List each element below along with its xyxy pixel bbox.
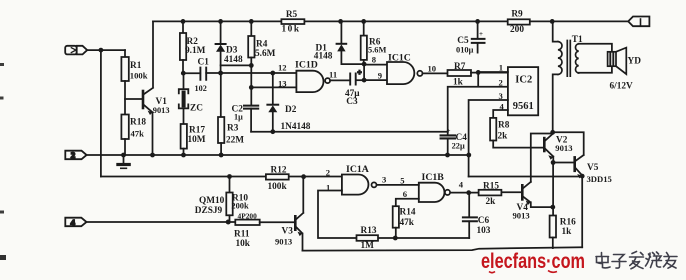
- svg-text:C1: C1: [198, 58, 210, 68]
- resistor R5: [281, 19, 304, 24]
- svg-text:9013: 9013: [275, 237, 292, 247]
- resistor R8: [490, 118, 496, 141]
- svg-text:R7: R7: [454, 62, 466, 72]
- connector J2 left: [65, 151, 86, 160]
- resistor R18: [121, 115, 128, 140]
- svg-text:IC1B: IC1B: [422, 172, 445, 183]
- svg-text:2: 2: [71, 150, 75, 160]
- transistor V2: [543, 138, 546, 151]
- capacitor C1: [183, 72, 200, 74]
- op-amp gate IC1C: [387, 62, 414, 84]
- svg-text:10M: 10M: [188, 135, 206, 145]
- diode D2: [272, 73, 274, 104]
- svg-text:V3: V3: [282, 226, 294, 236]
- svg-text:47k: 47k: [400, 218, 415, 228]
- resistor R10: [227, 174, 232, 179]
- crystal ZC: [183, 73, 185, 87]
- elecfans logo red: [481, 249, 585, 273]
- wire IC2 pin1: [478, 71, 508, 73]
- svg-text:10k: 10k: [282, 24, 301, 34]
- svg-text:IC2: IC2: [515, 75, 532, 86]
- svg-text:9013: 9013: [153, 106, 170, 115]
- svg-text:IC1C: IC1C: [388, 53, 411, 64]
- svg-text:2k: 2k: [486, 197, 497, 207]
- capacitor C3: [350, 73, 356, 84]
- wire IC1B pin4 out: [450, 192, 478, 194]
- svg-text:R5: R5: [286, 10, 298, 20]
- resistor R17: [181, 124, 187, 149]
- svg-text:102: 102: [195, 84, 207, 93]
- svg-text:1N4148: 1N4148: [281, 122, 311, 132]
- resistor R6: [361, 19, 366, 24]
- svg-text:elecfans·com: elecfans·com: [481, 249, 585, 273]
- svg-text:QM10: QM10: [199, 196, 225, 206]
- svg-text:5.6M: 5.6M: [255, 49, 276, 59]
- svg-text:100k: 100k: [130, 71, 148, 81]
- connector J4 left: [65, 218, 86, 227]
- resistor R15: [479, 190, 502, 196]
- svg-text:12: 12: [278, 63, 287, 73]
- svg-text:T1: T1: [572, 35, 583, 45]
- svg-text:R16: R16: [560, 217, 576, 227]
- scan specks left edge: [0, 65, 3, 213]
- resistor R14: [393, 206, 399, 228]
- resistor R16: [550, 216, 556, 238]
- diode D1: [338, 19, 343, 24]
- resistor R11: [235, 220, 259, 225]
- svg-text:3DD15: 3DD15: [587, 174, 612, 184]
- capacitor C5: [475, 19, 480, 24]
- capacitor C4: [441, 135, 455, 138]
- resistor R1: [124, 50, 126, 57]
- IC2 box: [508, 67, 538, 115]
- transformer T1 core: [567, 41, 570, 77]
- op-amp gate IC1B: [419, 183, 445, 202]
- wire IC1D pin11 out: [330, 79, 350, 81]
- svg-text:+: +: [358, 69, 362, 77]
- svg-text:6: 6: [403, 189, 408, 199]
- svg-text:3: 3: [499, 91, 503, 101]
- svg-text:4: 4: [500, 102, 505, 112]
- svg-text:IC1D: IC1D: [295, 60, 318, 71]
- svg-text:C3: C3: [346, 97, 358, 107]
- wire IC2 pin3: [469, 100, 508, 177]
- svg-text:10: 10: [428, 63, 437, 73]
- wire top supply bus: [153, 20, 628, 22]
- svg-text:5: 5: [400, 176, 404, 186]
- wire IC1A pin2 bus y176: [101, 176, 342, 178]
- resistor R13: [357, 235, 379, 241]
- svg-text:R4: R4: [256, 40, 268, 50]
- svg-text:4: 4: [459, 179, 464, 189]
- svg-text:2k: 2k: [498, 132, 509, 142]
- svg-text:R15: R15: [483, 181, 499, 191]
- junction dot R18 bottom: [121, 153, 126, 158]
- transistor V3: [294, 216, 297, 229]
- svg-text:9013: 9013: [555, 143, 572, 153]
- wire IC1B pin5 from IC1A out: [377, 184, 419, 186]
- wire D3-R4 link y65.4: [221, 64, 252, 66]
- svg-text:1k: 1k: [562, 227, 573, 237]
- wire V4 collector up: [531, 134, 553, 182]
- svg-text:D3: D3: [226, 46, 238, 56]
- svg-text:R14: R14: [400, 208, 416, 218]
- wire IC1C pin9: [364, 79, 387, 81]
- wire IC1C pin10 out: [423, 72, 448, 74]
- capacitor C2: [244, 106, 258, 109]
- connector J1 top right: [628, 17, 649, 27]
- resistor R2: [181, 19, 186, 24]
- svg-text:4P200: 4P200: [238, 212, 258, 221]
- svg-text:010μ: 010μ: [456, 45, 474, 54]
- svg-text:ZC: ZC: [190, 104, 203, 114]
- wire IC2 pin2: [448, 72, 508, 134]
- svg-text:10k: 10k: [236, 239, 251, 249]
- svg-text:11: 11: [329, 70, 337, 80]
- svg-text:9: 9: [378, 71, 382, 81]
- svg-text:R9: R9: [511, 10, 523, 20]
- svg-text:R17: R17: [189, 126, 205, 136]
- svg-text:V5: V5: [587, 163, 599, 173]
- op-amp gate IC1D: [296, 71, 323, 92]
- svg-text:R12: R12: [271, 166, 287, 176]
- transistor V5: [573, 157, 576, 170]
- svg-text:100k: 100k: [268, 182, 288, 192]
- wire link pin8-pin9: [363, 64, 365, 80]
- resistor R12: [266, 174, 289, 179]
- svg-text:R11: R11: [234, 230, 250, 240]
- svg-text:47k: 47k: [131, 128, 145, 138]
- wire V5 emitter return y176.5: [469, 176, 582, 178]
- capacitor C6: [468, 193, 470, 217]
- svg-text:R18: R18: [130, 117, 146, 127]
- svg-text:103: 103: [477, 226, 491, 236]
- wire connector4 to R10/R11: [87, 221, 236, 223]
- wire speaker loop: [579, 44, 612, 73]
- svg-text:1k: 1k: [453, 77, 464, 87]
- svg-text:200: 200: [510, 25, 524, 35]
- svg-text:R13: R13: [361, 226, 377, 236]
- wire transformer/collector node: [550, 130, 555, 135]
- svg-text:1: 1: [499, 63, 503, 73]
- svg-text:2: 2: [326, 168, 330, 178]
- svg-text:22μ: 22μ: [452, 142, 465, 151]
- wire IC1B pin6 to R14: [396, 199, 419, 206]
- wire node A vertical from connector 3 down to lower bus: [87, 50, 125, 176]
- wire IC1C pin8: [364, 64, 387, 66]
- wire V1 base: [125, 98, 143, 100]
- resistor R4: [249, 19, 254, 24]
- svg-text:5.6M: 5.6M: [368, 46, 386, 55]
- svg-text:C5: C5: [457, 36, 469, 46]
- speaker YD: [608, 52, 616, 66]
- svg-text:R1: R1: [130, 61, 142, 71]
- svg-text:1M: 1M: [361, 241, 375, 251]
- svg-text:R8: R8: [498, 120, 510, 130]
- transformer T1 secondary: [576, 44, 579, 73]
- wire C2/D2 bottom to C4: [251, 131, 448, 133]
- svg-text:9561: 9561: [513, 101, 534, 112]
- svg-text:1μ: 1μ: [234, 113, 243, 122]
- svg-text:6/12V: 6/12V: [610, 82, 634, 92]
- wire IC1A pin1 feedback + R13 net: [318, 191, 469, 239]
- wire bottom bus: [303, 247, 583, 250]
- svg-text:R3: R3: [227, 124, 239, 134]
- resistor R7: [448, 70, 472, 76]
- wire IC1D pin12 net: [206, 72, 296, 74]
- node B junction dot connector3: [99, 48, 104, 53]
- svg-text:1: 1: [326, 182, 330, 192]
- transformer T1 primary: [550, 19, 555, 24]
- diode D3: [218, 19, 223, 24]
- svg-text:13: 13: [278, 79, 287, 89]
- svg-text:YD: YD: [628, 56, 642, 66]
- ground: [123, 155, 125, 163]
- svg-text:IC1A: IC1A: [346, 164, 369, 175]
- wire R11 to V3 base: [260, 221, 296, 223]
- svg-text:22M: 22M: [226, 136, 244, 146]
- svg-text:DZSJ9: DZSJ9: [195, 206, 223, 216]
- svg-text:+: +: [479, 30, 483, 38]
- resistor R9: [508, 19, 530, 24]
- resistor R3: [220, 73, 222, 117]
- wire IC2 pin4 to R8: [493, 110, 508, 118]
- op-amp gate IC1A: [342, 175, 369, 195]
- wire R16 branch vertical: [552, 163, 554, 216]
- svg-text:4: 4: [71, 217, 76, 227]
- svg-text:+: +: [447, 127, 451, 135]
- junction dot R12/V3 collector: [301, 174, 306, 179]
- svg-text:200k: 200k: [231, 201, 249, 210]
- svg-text:9013: 9013: [513, 211, 530, 221]
- svg-text:8: 8: [372, 55, 377, 65]
- svg-text:C6: C6: [478, 216, 490, 226]
- chinese brand text: [596, 252, 677, 269]
- wire ground bus y155: [87, 154, 470, 156]
- svg-text:9.1M: 9.1M: [185, 46, 206, 56]
- svg-text:4148: 4148: [224, 55, 243, 65]
- connector J3 (plug pair top left): [65, 46, 87, 55]
- svg-text:D2: D2: [285, 105, 297, 115]
- wire IC1D pin13: [251, 86, 296, 88]
- svg-text:2: 2: [499, 77, 503, 87]
- svg-text:3: 3: [382, 174, 386, 184]
- transistor V1: [142, 91, 145, 108]
- transistor V4: [521, 185, 524, 199]
